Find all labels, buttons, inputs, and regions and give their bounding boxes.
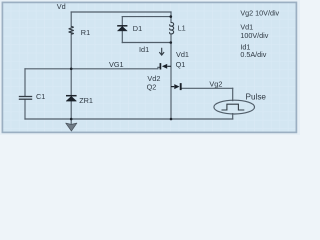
MOSFET Q1 [160,63,171,69]
zener diode ZR1 [66,96,77,101]
diode D1 [117,26,127,31]
inductor L1 [170,22,174,34]
svg-text:VG1: VG1 [109,60,124,69]
svg-text:C1: C1 [36,92,45,101]
svg-text:D1: D1 [133,24,142,33]
page background [0,0,300,135]
svg-text:Pulse: Pulse [246,93,267,102]
svg-text:L1: L1 [178,23,186,32]
wire: left vertical ZR1 anode to bottom rail [70,101,72,119]
svg-text:100V/div: 100V/div [240,31,268,40]
svg-text:R1: R1 [81,28,90,37]
junction node: VG1 / R1 bottom [70,68,73,71]
svg-text:ZR1: ZR1 [79,96,93,105]
wire: D1 top connection rail [122,16,170,18]
wire: top rail Vd node [71,11,171,13]
wire: main right vertical top (rail corner down to L1) [170,12,172,23]
junction node: D1 bottom / L1 bottom [170,41,173,44]
svg-text:0.5A/div: 0.5A/div [240,50,266,59]
wire: Q2 gate wire to pulse source [182,87,233,89]
wire: pulse source top lead [232,88,234,100]
wire: VG1 gate wire [25,67,160,69]
wire: ground stub [70,119,72,123]
wire: left vertical upper (rail to R1) [70,12,72,26]
resistor R1 [69,26,73,34]
svg-text:Vd1: Vd1 [176,50,189,59]
ground [66,123,77,131]
svg-text:Vg2 10V/div: Vg2 10V/div [240,9,279,18]
svg-text:Id1: Id1 [139,45,149,54]
svg-text:Vd: Vd [57,2,66,11]
current arrow Id1 [159,48,164,55]
wire: D1 bottom connection [122,42,170,44]
wire: bottom rail [25,118,233,120]
MOSFET Q2 [171,83,181,90]
svg-text:Vg2: Vg2 [209,80,222,89]
junction node: rail2 / L1 top [170,15,173,18]
wire: main right vertical (L1 bottom through Q1,Q2 to bottom rail) [170,34,172,119]
wire: C1 branch vertical [24,69,26,119]
svg-text:Q2: Q2 [147,82,157,91]
pulse source Vg2 [214,100,255,114]
schematic background fill with grid texture [3,3,297,133]
wire: D1 branch vertical [121,17,123,43]
wire: left vertical between R1 and VG1 node [70,34,72,95]
wire: pulse source bottom lead [232,114,234,119]
junction node: ground / bottom rail [70,118,73,121]
junction node: main vertical / bottom rail [170,118,173,121]
capacitor C1 [19,97,32,100]
border frame [2,2,296,132]
svg-text:Q1: Q1 [176,60,186,69]
